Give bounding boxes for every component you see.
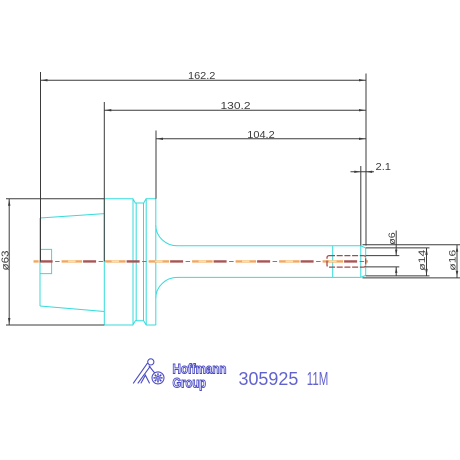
- svg-text:130.2: 130.2: [221, 100, 251, 112]
- svg-text:162.2: 162.2: [188, 70, 216, 82]
- svg-text:ø14: ø14: [417, 250, 428, 271]
- svg-text:11M: 11M: [307, 369, 329, 389]
- svg-text:ø63: ø63: [1, 250, 12, 271]
- svg-text:104.2: 104.2: [247, 129, 275, 141]
- svg-text:ø6: ø6: [387, 232, 398, 245]
- svg-text:Group: Group: [173, 375, 207, 391]
- svg-text:2.1: 2.1: [376, 161, 392, 173]
- svg-text:305925: 305925: [239, 369, 299, 389]
- svg-text:ø16: ø16: [447, 250, 458, 271]
